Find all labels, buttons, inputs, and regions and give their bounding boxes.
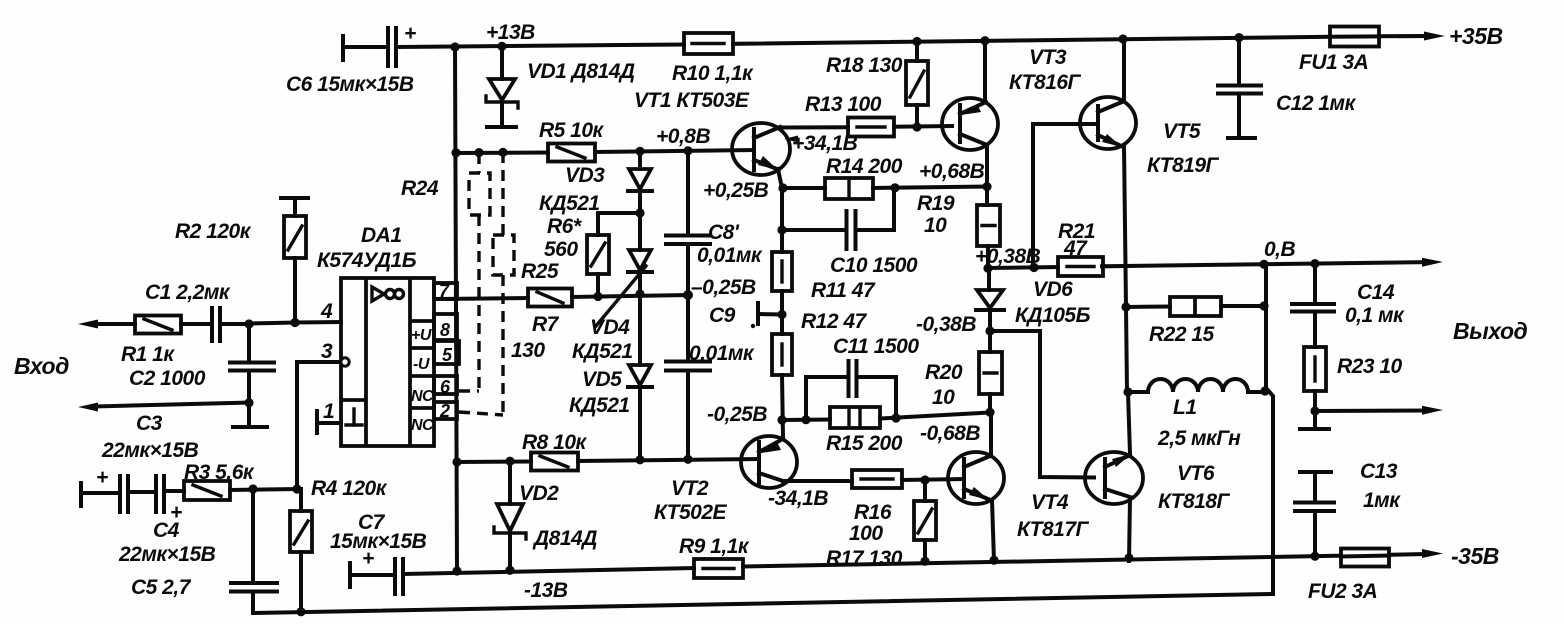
svg-text:47: 47 [1063, 237, 1088, 260]
svg-text:NC: NC [411, 417, 434, 434]
inductor L1 [1128, 379, 1266, 450]
resistor R20 [925, 331, 1002, 412]
wire: tall vertical left bus (C6 node to -13V rail) [455, 47, 457, 571]
svg-text:R6*: R6* [547, 215, 582, 238]
resistor R3 [184, 461, 297, 500]
zener diode VD1 [486, 46, 635, 127]
svg-text:15мк×15В: 15мк×15В [330, 530, 427, 553]
wire: output node vertical and bottom feedback line [253, 265, 1273, 613]
svg-text:R17 130: R17 130 [826, 547, 903, 570]
svg-text:C13: C13 [1360, 460, 1398, 483]
op-amp DA1 [317, 224, 459, 446]
svg-text:8: 8 [440, 320, 450, 340]
svg-text:C5 2,7: C5 2,7 [131, 576, 192, 599]
resistor R16 [849, 470, 902, 545]
svg-text:КТ816Г: КТ816Г [1009, 71, 1082, 94]
arrow: C3 output tap [78, 403, 249, 463]
capacitor C12 [1218, 37, 1357, 138]
resistor R11 [772, 188, 876, 334]
resistor R21 [1058, 220, 1103, 276]
wire: DA1 pin7 output line [438, 276, 756, 299]
svg-text:VD3: VD3 [565, 164, 605, 187]
svg-text:-0,68В: -0,68В [920, 422, 980, 445]
svg-text:R5 10к: R5 10к [539, 119, 605, 142]
svg-text:R8 10к: R8 10к [522, 431, 588, 454]
svg-text:КД521: КД521 [539, 192, 600, 215]
svg-text:FU1 3А: FU1 3А [1299, 51, 1368, 74]
fuse FU1 [1299, 27, 1379, 75]
svg-text:C2 1000: C2 1000 [129, 367, 206, 390]
svg-text:+: + [96, 466, 108, 489]
wire: VD6 to VT6 base [990, 331, 1094, 478]
svg-text:VT4: VT4 [1031, 491, 1069, 514]
svg-text:VD6: VD6 [1033, 278, 1073, 301]
diode VD3 [539, 152, 652, 250]
transistor VT5 [1033, 38, 1220, 392]
resistor R25 (dashed) [459, 152, 559, 415]
svg-text:-35В: -35В [1451, 543, 1499, 569]
resistor R14 [825, 155, 903, 199]
svg-text:C12 1мк: C12 1мк [1276, 92, 1357, 115]
resistor R6 [544, 213, 640, 296]
resistor R5 [539, 119, 605, 162]
transistor VT1 [634, 89, 790, 188]
svg-text:0,01мк: 0,01мк [689, 342, 755, 365]
svg-text:10: 10 [924, 214, 947, 237]
resistor R9 [679, 535, 750, 578]
svg-text:+13В: +13В [486, 21, 535, 44]
transistor VT4 [948, 412, 1090, 561]
capacitor C5 [131, 489, 277, 613]
svg-text:6: 6 [440, 377, 451, 397]
svg-text:L1: L1 [1173, 396, 1197, 419]
resistor R23 [1300, 347, 1403, 429]
wire: VT1 collector to VT3 base [780, 125, 848, 129]
svg-text:10: 10 [932, 386, 955, 409]
capacitor C6 [286, 22, 416, 96]
svg-text:C3: C3 [136, 412, 163, 435]
svg-text:-13В: -13В [524, 579, 568, 602]
svg-text:КД521: КД521 [569, 394, 630, 417]
svg-text:VT5: VT5 [1163, 120, 1201, 143]
svg-text:К574УД1Б: К574УД1Б [317, 249, 417, 272]
svg-text:VD1 Д814Д: VD1 Д814Д [527, 60, 635, 83]
svg-text:-U: -U [413, 356, 430, 373]
svg-text:R20: R20 [925, 361, 963, 384]
svg-text:R22 15: R22 15 [1149, 323, 1215, 346]
svg-text:560: 560 [544, 238, 578, 261]
svg-text:VT2: VT2 [671, 477, 709, 500]
svg-text:+: + [404, 22, 416, 45]
wire: DA1 pin4 input [295, 300, 341, 323]
capacitor C11 [806, 335, 919, 420]
diode VD5 [569, 365, 652, 460]
svg-text:R24: R24 [401, 177, 439, 200]
svg-text:C14: C14 [1357, 281, 1395, 304]
capacitor C13 [1295, 460, 1401, 556]
svg-text:22мк×15В: 22мк×15В [118, 543, 216, 566]
wire: +0.25V emitter line with R14 [703, 160, 987, 202]
transistor VT2 [654, 436, 828, 524]
wire: -0.25V emitter line with R15 [707, 403, 990, 445]
fuse FU2 [1308, 549, 1389, 604]
svg-text:КД521: КД521 [572, 340, 633, 363]
svg-text:Вход: Вход [14, 353, 69, 379]
wire: 0V output line with R21 [989, 238, 1425, 268]
svg-text:NC: NC [411, 388, 434, 405]
capacitor C9 [666, 295, 755, 460]
svg-text:-0,38В: -0,38В [916, 313, 976, 336]
svg-text:C1 2,2мк: C1 2,2мк [145, 281, 231, 304]
svg-text:0,01мк: 0,01мк [697, 244, 763, 267]
svg-text:1: 1 [323, 400, 334, 423]
svg-text:КТ818Г: КТ818Г [1158, 490, 1231, 513]
svg-text:C8': C8' [708, 221, 740, 244]
resistor R2 [175, 198, 308, 323]
zener diode VD2 [494, 461, 597, 572]
svg-text:R3 5,6к: R3 5,6к [184, 461, 255, 484]
svg-text:C4: C4 [153, 519, 180, 542]
svg-text:R9 1,1к: R9 1,1к [679, 535, 750, 558]
resistor R22 [1126, 297, 1264, 346]
node labels +-0.38V [916, 245, 1041, 336]
arrow +35V [1424, 23, 1503, 49]
capacitor C14 [1292, 264, 1405, 348]
svg-text:-34,1В: -34,1В [768, 487, 828, 510]
svg-text:-0,25В: -0,25В [707, 403, 767, 426]
svg-text:DA1: DA1 [361, 224, 402, 247]
capacitor C10 [782, 189, 918, 277]
svg-text:22мк×15В: 22мк×15В [101, 439, 199, 462]
diode VD4 [572, 250, 652, 365]
wire: +13V / +35V top rail [346, 36, 1427, 47]
svg-text:C10 1500: C10 1500 [830, 254, 918, 277]
svg-text:R23 10: R23 10 [1337, 355, 1403, 378]
svg-text:FU2 3А: FU2 3А [1308, 580, 1377, 603]
svg-text:5: 5 [442, 345, 453, 365]
svg-text:3: 3 [321, 340, 333, 363]
resistor R17 [826, 480, 936, 570]
capacitor C1 [145, 281, 295, 341]
svg-text:+0,68В: +0,68В [919, 160, 985, 183]
svg-text:0,В: 0,В [1264, 238, 1296, 261]
svg-text:0,1 мк: 0,1 мк [1345, 304, 1405, 327]
svg-text:R7: R7 [532, 313, 560, 336]
svg-text:C11 1500: C11 1500 [833, 335, 919, 358]
svg-text:VT1 КТ503Е: VT1 КТ503Е [634, 89, 750, 112]
svg-text:2,5 мкГн: 2,5 мкГн [1157, 427, 1241, 450]
svg-text:R19: R19 [917, 192, 955, 215]
resistor R19 [917, 187, 1000, 268]
svg-text:R25: R25 [521, 260, 559, 283]
svg-text:1мк: 1мк [1363, 489, 1401, 512]
svg-text:C6 15мк×15В: C6 15мк×15В [286, 73, 414, 96]
arrow 0V [1422, 258, 1443, 267]
svg-text:R2 120к: R2 120к [175, 220, 252, 243]
svg-text:КТ819Г: КТ819Г [1147, 154, 1220, 177]
svg-text:R13 100: R13 100 [805, 93, 882, 116]
capacitor C4 [118, 476, 216, 566]
resistor R10 [672, 33, 754, 85]
transistor VT6 [1085, 392, 1231, 561]
svg-text:R1 1к: R1 1к [121, 343, 175, 366]
arrow: input upper [14, 320, 135, 380]
svg-text:+0,25В: +0,25В [703, 179, 769, 202]
wire: R8 base rail [457, 459, 759, 462]
wire: +0.8V base rail [455, 125, 754, 153]
svg-text:C9: C9 [709, 304, 736, 327]
svg-text:VD2: VD2 [519, 482, 559, 505]
svg-text:КД105Б: КД105Б [1015, 304, 1091, 327]
svg-text:2: 2 [439, 401, 450, 421]
transistor VT3 [942, 40, 1082, 187]
capacitor C3 (electrolytic, input lower) [81, 466, 128, 512]
wire: DA1 pin1 terminal [317, 400, 341, 433]
resistor R24 (dashed) [401, 153, 490, 391]
svg-text:R18 130: R18 130 [826, 54, 903, 77]
svg-text:7: 7 [439, 281, 450, 301]
svg-text:–0,25В: –0,25В [691, 276, 756, 299]
svg-text:КТ817Г: КТ817Г [1017, 518, 1090, 541]
diode VD6 [976, 268, 1091, 331]
svg-text:КТ502Е: КТ502Е [654, 501, 728, 524]
svg-text:+35В: +35В [1449, 23, 1503, 49]
svg-text:4: 4 [320, 300, 333, 323]
svg-text:R15 200: R15 200 [826, 432, 903, 455]
svg-text:R4 120к: R4 120к [311, 477, 388, 500]
svg-text:130: 130 [511, 339, 545, 362]
resistor R18 [826, 41, 928, 127]
svg-text:R16: R16 [854, 501, 892, 524]
svg-text:VT6: VT6 [1177, 462, 1215, 485]
svg-text:+0,8В: +0,8В [656, 125, 710, 148]
svg-text:VT3: VT3 [1029, 46, 1067, 69]
svg-text:R14 200: R14 200 [826, 155, 903, 178]
svg-text:R10 1,1к: R10 1,1к [672, 62, 754, 85]
wire: VT2 collector to VT4 base [783, 479, 964, 481]
capacitor C8 [666, 151, 763, 295]
wire: -13V rail [404, 554, 1425, 602]
svg-text:R11 47: R11 47 [811, 279, 876, 302]
resistor R4 [290, 477, 388, 612]
capacitor C7 [330, 511, 427, 594]
resistor R7 [511, 289, 572, 363]
terminal tap near C9 [751, 303, 782, 328]
capacitor C2 [129, 324, 274, 427]
arrow: output lower [1315, 318, 1528, 415]
svg-text:Д814Д: Д814Д [532, 527, 597, 550]
arrow -35V [1422, 543, 1499, 569]
svg-text:+U: +U [411, 327, 432, 344]
label +34.1V [784, 132, 858, 155]
resistor R12 [772, 310, 868, 437]
resistor R8 [522, 431, 588, 471]
svg-text:VD4: VD4 [590, 316, 630, 339]
svg-text:VD5: VD5 [582, 368, 622, 391]
resistor R13 [805, 93, 894, 137]
wire: DA1 pin3 with inverting bubble [297, 340, 349, 489]
resistor R15 [826, 407, 903, 455]
svg-text:Выход: Выход [1453, 318, 1528, 344]
svg-text:100: 100 [849, 522, 883, 545]
resistor R1 [121, 316, 211, 367]
svg-text:R12 47: R12 47 [801, 310, 868, 333]
